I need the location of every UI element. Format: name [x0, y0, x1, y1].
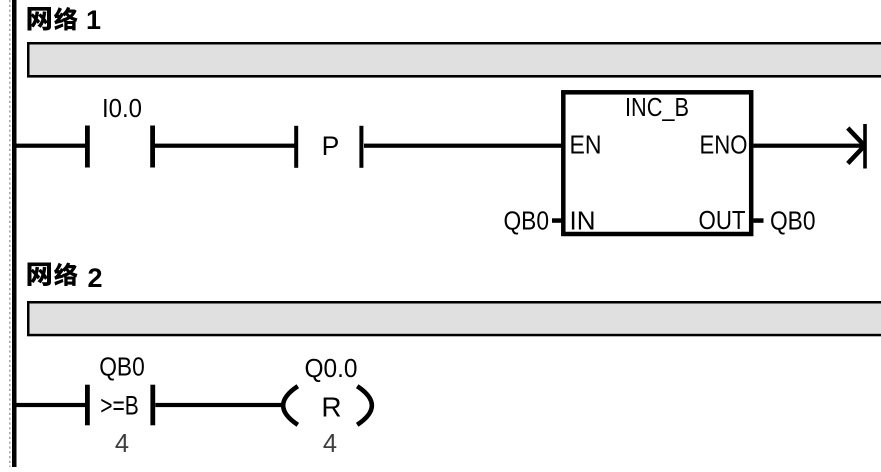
svg-text:QB0: QB0: [504, 208, 550, 236]
svg-text:1: 1: [86, 5, 101, 35]
svg-text:2: 2: [87, 263, 102, 293]
svg-text:>=B: >=B: [100, 391, 139, 421]
svg-text:Q0.0: Q0.0: [305, 355, 358, 383]
svg-text:IN: IN: [570, 208, 596, 236]
svg-text:INC_B: INC_B: [625, 94, 689, 122]
svg-text:R: R: [321, 392, 341, 423]
svg-text:I0.0: I0.0: [102, 95, 142, 123]
svg-text:P: P: [322, 131, 340, 161]
svg-text:QB0: QB0: [99, 354, 145, 382]
svg-text:4: 4: [115, 430, 129, 458]
svg-text:OUT: OUT: [699, 207, 746, 235]
svg-text:4: 4: [323, 430, 337, 458]
svg-text:EN: EN: [570, 132, 602, 160]
svg-text:ENO: ENO: [700, 132, 748, 160]
svg-text:QB0: QB0: [770, 208, 816, 236]
